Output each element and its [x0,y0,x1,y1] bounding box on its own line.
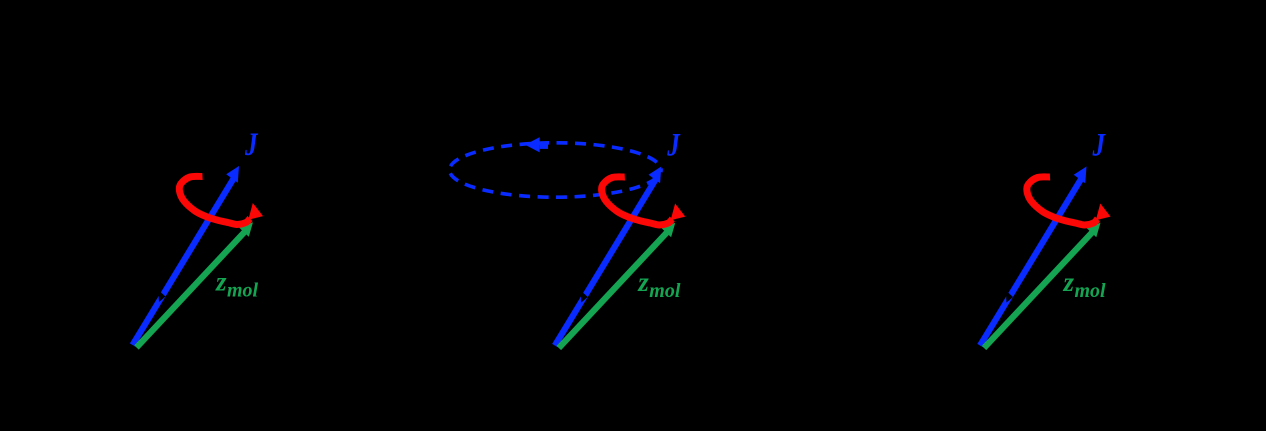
vector z_mol: green arrow shaft (diagram 3) [984,232,1093,348]
vector J: blue arrow shaft (diagram 3) [980,178,1082,346]
label J (blue, bold italic serif) (diagram 2) [666,127,681,163]
vector z_mol: green arrow shaft (diagram 2) [559,232,668,348]
molecular rotation arrow: red arrowhead (diagram 3) [1096,204,1111,221]
molecular rotation arrow: red elliptical arc (diagram 1) [179,176,250,224]
vector J: blue arrow shaft (diagram 1) [133,177,235,345]
vector J: blue arrowhead (diagram 1) [226,166,239,183]
black notch crossing blue shaft (diagram 1) [158,290,165,302]
svg-text:z: z [215,267,227,297]
label J (blue, bold italic serif) (diagram 1) [244,127,259,163]
svg-text:z: z [1063,267,1075,297]
molecular rotation arrow: red arrowhead (diagram 2) [671,204,686,221]
black notch crossing blue shaft (diagram 2) [581,291,588,303]
vector z_mol: green arrowhead (diagram 1) [239,222,253,237]
vector z_mol: green arrowhead (diagram 3) [1087,223,1101,238]
molecular rotation arrow: red arrowhead (diagram 1) [248,203,263,220]
svg-text:J: J [1092,127,1107,163]
svg-text:mol: mol [1075,280,1107,302]
vector z_mol: green arrow shaft (diagram 1) [137,232,246,348]
svg-text:J: J [666,127,681,163]
molecular rotation arrow: red elliptical arc (diagram 2) [602,177,673,225]
svg-text:z: z [637,267,649,297]
vector J: blue arrow shaft (diagram 2) [555,178,657,346]
vector J: blue arrowhead (diagram 2) [649,167,662,184]
svg-text:J: J [244,127,259,163]
precession arrowhead tail segment on dashed ellipse (diagram 2) [540,142,548,149]
vector J: blue arrowhead (diagram 3) [1074,167,1087,184]
svg-text:mol: mol [649,280,681,302]
label J (blue, bold italic serif) (diagram 3) [1092,127,1107,163]
molecular rotation arrow: red elliptical arc (diagram 3) [1027,177,1098,225]
vector z_mol: green arrowhead (diagram 2) [662,223,676,238]
precession direction arrowhead on dashed ellipse (diagram 2) [525,137,540,152]
svg-text:mol: mol [227,280,259,302]
precession orbit: dashed blue ellipse (diagram 2) [450,143,662,197]
black notch crossing blue shaft (diagram 3) [1006,291,1013,303]
